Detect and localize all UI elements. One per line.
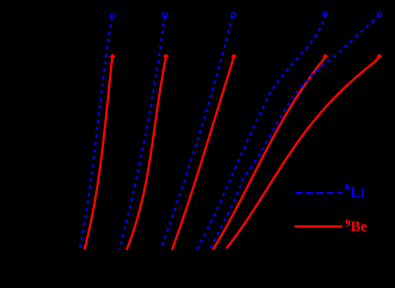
marker diamond pair1 red — [110, 54, 116, 59]
svg-text:9Be: 9Be — [345, 218, 368, 236]
marker diamond pair3 red — [231, 54, 237, 59]
curve 9Be pair4 (red solid) — [213, 57, 326, 250]
curve 9Be pair1 (red solid) — [85, 57, 113, 250]
curve 9Be pair5 (red solid) — [226, 57, 379, 249]
marker diamond pair2 red — [163, 54, 169, 59]
marker circle pair5 blue — [377, 13, 381, 17]
marker circle pair3 blue — [231, 13, 235, 17]
legend line 9Be (red solid) — [295, 225, 343, 227]
curve 6Li pair3 (blue dashed) — [161, 16, 233, 250]
curve 9Be pair2 (red solid) — [127, 57, 167, 250]
curve 6Li pair5 (blue dashed) — [210, 15, 380, 250]
marker circle pair2 blue — [163, 13, 167, 17]
curve 9Be pair3 (red solid) — [172, 57, 234, 251]
curve 6Li pair4 (blue dashed) — [197, 14, 326, 250]
svg-text:6Li: 6Li — [345, 182, 365, 202]
legend line 6Li (blue dashed) — [296, 192, 343, 194]
marker circle pair4 blue — [323, 12, 327, 16]
curve 6Li pair2 (blue dashed) — [120, 16, 165, 250]
marker diamond pair5 red — [376, 54, 382, 59]
marker diamond pair4 red — [323, 54, 329, 59]
curve 6Li pair1 (blue dashed) — [80, 17, 113, 250]
marker circle pair1 blue — [110, 14, 114, 18]
